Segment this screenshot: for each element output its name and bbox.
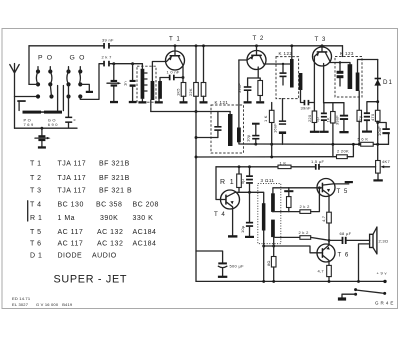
- wire row3 GO to osc cap: [80, 64, 103, 100]
- resistor T2 bias lower: [201, 83, 206, 97]
- svg-text:EL 3027 G V 16 000 B419: EL 3027 G V 16 000 B419: [12, 302, 73, 307]
- node branch K121: [195, 136, 198, 139]
- wire bias res top to bus: [203, 46, 205, 83]
- svg-text:2 k 2: 2 k 2: [300, 204, 311, 209]
- svg-text:BC 130: BC 130: [58, 202, 84, 209]
- wire pot ground stem: [377, 173, 379, 179]
- wire secondary top to T5 base: [273, 188, 317, 194]
- ground 1K5: [180, 101, 188, 103]
- node det res AGC: [358, 143, 361, 146]
- capacitor 10uF T4: [240, 192, 253, 236]
- wire AGC sloping line: [239, 142, 361, 144]
- node R1 top: [238, 165, 241, 168]
- ground VC1: [38, 146, 46, 148]
- wire 500uF branch: [196, 251, 223, 262]
- wire T3 emitter branch: [324, 102, 344, 104]
- wire D1 branch to 22uF: [367, 102, 378, 113]
- ground 10uF: [245, 236, 254, 238]
- wire 8ohm to bus: [273, 267, 275, 281]
- wire T3 base riser: [313, 57, 315, 103]
- wire R1 stems: [238, 167, 240, 193]
- svg-text:ED 14.71: ED 14.71: [12, 296, 31, 301]
- capacitor 39nF T3 emitter: [334, 103, 348, 131]
- wire L2 top to T1 base: [152, 62, 165, 82]
- svg-text:5µ: 5µ: [240, 179, 245, 184]
- ground osc L3: [158, 99, 160, 101]
- wire T3 top stem: [321, 46, 323, 47]
- node 10u decoupler: [254, 143, 257, 146]
- K121 secondary coil bar: [237, 128, 241, 143]
- wire T1 top stem: [174, 46, 176, 51]
- svg-text:4,7: 4,7: [318, 269, 325, 274]
- capacitor 10nF T1: [167, 70, 180, 81]
- capacitor 5u bootstrap: [240, 167, 253, 193]
- svg-text:T 1: T 1: [30, 160, 42, 167]
- node 5u top: [248, 165, 251, 168]
- potentiometer 4K7 volume: [376, 159, 391, 173]
- svg-text:220: 220: [307, 114, 312, 122]
- wire AGC right end: [361, 143, 389, 145]
- wire T6 res to bus: [328, 277, 330, 282]
- wire coil bottom bus: [15, 123, 78, 128]
- wire K122 primary top to bus: [291, 46, 293, 59]
- parts table bracket: [27, 201, 29, 221]
- top supply bus: [29, 45, 343, 47]
- resistor 2k2 upper: [300, 204, 311, 213]
- transistor T2: [247, 35, 266, 78]
- svg-text:1K: 1K: [325, 117, 330, 122]
- coil L1 taps: [144, 73, 147, 91]
- oscillator coil bar L1: [141, 69, 145, 99]
- svg-text:7 6 9: 7 6 9: [24, 122, 34, 127]
- svg-text:T 2: T 2: [253, 35, 265, 42]
- wire T2 base riser to K121: [238, 60, 240, 128]
- node 220K riser: [352, 143, 355, 146]
- wire speaker return: [359, 244, 370, 282]
- svg-text:39nF: 39nF: [237, 83, 242, 93]
- capacitor T2 emitter bypass: [237, 78, 251, 93]
- loudspeaker: [370, 227, 389, 255]
- wire 10nF to T1 collector: [175, 77, 183, 79]
- wire 2k2 lower wiring: [275, 237, 329, 240]
- wire T4 base riser: [216, 167, 221, 200]
- wire 22K top stem: [195, 46, 197, 83]
- svg-text:T 4: T 4: [214, 211, 226, 218]
- svg-text:1 K: 1 K: [280, 160, 287, 165]
- driver transformer 3011 dotted box: [258, 184, 281, 244]
- wire branch to K121 cap: [196, 137, 218, 139]
- power switch contact a: [354, 288, 357, 291]
- svg-text:10µ: 10µ: [240, 225, 245, 233]
- wire 220K ends: [347, 144, 353, 156]
- main bus vertical left: [195, 112, 197, 282]
- wire L1 ground stem: [141, 99, 143, 101]
- oscillator coil bar L2: [151, 81, 155, 100]
- svg-text:T 3: T 3: [30, 188, 42, 195]
- svg-text:T 4: T 4: [30, 202, 42, 209]
- wire T3 collector: [331, 63, 350, 65]
- capacitor 68uF output: [329, 231, 370, 244]
- node T1 top bus: [174, 44, 177, 47]
- resistor R1: [220, 174, 241, 188]
- svg-text:BF 321B: BF 321B: [99, 160, 130, 167]
- wire T6 base feed: [264, 246, 318, 253]
- svg-text:c: c: [74, 117, 76, 122]
- svg-text:4,7: 4,7: [321, 215, 326, 222]
- resistor 4,7 T6: [318, 265, 332, 276]
- capacitor K121 tuning: [214, 112, 221, 138]
- wire bus corner into K123: [342, 46, 344, 57]
- ground pot: [373, 179, 382, 181]
- svg-text:2 20K: 2 20K: [337, 149, 349, 154]
- transistor T3: [313, 36, 332, 103]
- node AVC bus: [195, 110, 198, 113]
- wire 470 to pot: [377, 121, 379, 160]
- K122 primary coil bar: [290, 59, 294, 88]
- node D1 branch: [376, 100, 379, 103]
- ground T4 emitter: [228, 235, 237, 237]
- ground 39nF d: [339, 131, 348, 133]
- resistor 8ohm bias: [266, 257, 276, 268]
- wire bias res stems: [313, 103, 315, 131]
- wire trimmer stem: [18, 102, 20, 111]
- node bias res bus: [202, 44, 205, 47]
- trimmer plate near antenna: [17, 100, 25, 102]
- svg-text:2 k 2: 2 k 2: [299, 230, 310, 235]
- wire K123 secondary bottom: [358, 91, 360, 110]
- svg-text:1 K: 1 K: [263, 115, 268, 122]
- decoupling cap with top plate: [245, 123, 259, 144]
- IF transformer K121 dashed box: [211, 105, 244, 153]
- node volume bus: [195, 156, 198, 159]
- node bus T6: [328, 280, 331, 283]
- node osc VC2: [112, 62, 115, 65]
- wire T2 base stub: [239, 59, 247, 61]
- wire AF input line: [216, 166, 376, 168]
- capacitor 10nF det: [377, 123, 390, 145]
- resistor 56K horizontal: [358, 137, 374, 147]
- transistor T1: [166, 36, 185, 83]
- wire T2 top stem: [256, 46, 258, 51]
- ground VC2: [110, 101, 118, 103]
- svg-text:G R 4 E: G R 4 E: [375, 301, 394, 306]
- wire VC2 stem: [113, 64, 115, 80]
- node primary riser: [262, 245, 265, 248]
- wire 1K T3 stems and riser to 220K: [332, 103, 334, 157]
- svg-text:5 6 K: 5 6 K: [358, 137, 369, 142]
- switch GO ground link: [80, 84, 89, 90]
- node K122 bus: [290, 44, 293, 47]
- wire L2 bottom to AVC: [150, 100, 152, 112]
- transformer 3011 secondary upper bar: [271, 193, 275, 212]
- node T5 base: [318, 186, 321, 189]
- ground GO switch: [86, 91, 93, 93]
- svg-text:T 1: T 1: [169, 36, 181, 43]
- battery chassis block: [338, 297, 346, 300]
- svg-text:BC 208: BC 208: [133, 202, 159, 209]
- svg-text:3 Ω11: 3 Ω11: [261, 178, 275, 183]
- oscillator coil bar L3: [158, 81, 162, 99]
- svg-text:+ 9 v: + 9 v: [377, 271, 387, 276]
- capacitor 500uF: [218, 262, 244, 275]
- wire 22uF ground stem: [366, 121, 368, 130]
- ground cap1n: [129, 101, 137, 103]
- K123 primary coil bar: [348, 64, 353, 89]
- svg-text:BF 321B: BF 321B: [99, 175, 130, 182]
- capacitor 1n osc: [122, 64, 135, 87]
- resistor 4,7 T5 emitter: [321, 212, 331, 223]
- wire row3 trimmer stem: [68, 97, 70, 117]
- transformer 3011 secondary lower bar: [271, 220, 275, 238]
- svg-text:39 nF: 39 nF: [102, 38, 114, 43]
- svg-text:6 9 0: 6 9 0: [48, 122, 58, 127]
- capacitor 1,5uF AF: [311, 159, 324, 170]
- node cap10nF top: [376, 121, 379, 124]
- capacitor 39nF series in bus: [102, 38, 114, 49]
- svg-text:SUPER - JET: SUPER - JET: [54, 274, 128, 286]
- node 56K junction D1 line: [376, 143, 379, 146]
- node collector cap: [248, 191, 251, 194]
- node osc cap1n: [131, 62, 134, 65]
- resistor 1K T3: [325, 112, 335, 124]
- wire K123 secondary top to D1: [358, 60, 378, 73]
- node K122 cap top: [282, 63, 284, 65]
- transformer 3011 primary bar: [262, 203, 266, 230]
- K122 secondary coil bar: [299, 73, 303, 90]
- switch row1 stems: [38, 67, 80, 72]
- ground 500uF: [218, 276, 227, 278]
- wire 22K bottom to AVC node: [195, 96, 197, 111]
- svg-text:AC 117: AC 117: [58, 229, 84, 236]
- wire 2k2 upper to base: [311, 188, 320, 212]
- power switch contact b: [354, 293, 357, 296]
- resistor T2 emitter: [258, 81, 263, 96]
- svg-text:330 K: 330 K: [133, 215, 154, 222]
- svg-text:BF 321 B: BF 321 B: [99, 188, 132, 195]
- power switch terminal: [383, 292, 386, 295]
- svg-text:500 µF: 500 µF: [230, 264, 245, 269]
- wire secondary upper bottom to 2k2: [273, 211, 300, 213]
- node bus speaker: [357, 280, 360, 283]
- node 22K top: [195, 44, 198, 47]
- svg-text:K 121: K 121: [215, 100, 229, 105]
- svg-text:K 122: K 122: [279, 51, 293, 56]
- capacitor 16nF: [273, 99, 287, 145]
- coil GO 690 ferrite bar: [44, 111, 62, 114]
- wire K122 secondary to 39nF: [301, 90, 304, 103]
- svg-text:R 1: R 1: [30, 215, 42, 222]
- wire 1K5 ground stem: [183, 96, 185, 101]
- svg-text:R 1: R 1: [220, 179, 235, 186]
- svg-text:T 5: T 5: [30, 229, 42, 236]
- svg-text:AC184: AC184: [133, 241, 157, 248]
- svg-text:2 k 7: 2 k 7: [102, 55, 113, 60]
- svg-text:AC 117: AC 117: [58, 241, 84, 248]
- ground 22uF: [362, 131, 372, 133]
- wire box edge to row2: [29, 83, 38, 85]
- capacitor K122 tuning: [280, 64, 287, 85]
- svg-text:AC 132: AC 132: [97, 241, 123, 248]
- node VC1 top: [41, 127, 44, 130]
- svg-text:P O: P O: [38, 55, 53, 62]
- resistor 1K5: [176, 83, 186, 97]
- wire T2 res ground stem: [259, 96, 261, 101]
- capacitor 2k7 series osc: [102, 55, 113, 67]
- ground osc L1: [138, 101, 146, 103]
- svg-text:TJA 117: TJA 117: [58, 188, 87, 195]
- antenna: [10, 64, 19, 129]
- svg-text:1K5: 1K5: [176, 88, 181, 96]
- wire volume feed: [196, 156, 337, 158]
- node bus primary: [262, 280, 265, 283]
- wire T6 top stem: [328, 240, 330, 245]
- variable capacitor VC1 (tuning gang a): [35, 128, 51, 141]
- svg-text:T 6: T 6: [30, 241, 42, 248]
- svg-text:1 Ma: 1 Ma: [58, 215, 76, 222]
- node T5 T6 junction: [328, 239, 331, 242]
- wire 39nF to base riser: [309, 102, 314, 104]
- node bus 8ohm: [272, 280, 275, 283]
- transistor T4: [214, 190, 240, 235]
- wire 1K riser: [271, 103, 273, 158]
- resistor 220K horizontal: [337, 149, 349, 159]
- svg-text:8Ω: 8Ω: [266, 260, 271, 266]
- transistor T5: [317, 179, 349, 213]
- wire antenna to switch row3: [15, 96, 39, 98]
- svg-text:T 2: T 2: [30, 175, 42, 182]
- wire K121 primary top stem: [229, 112, 231, 115]
- svg-text:10µ: 10µ: [245, 134, 250, 142]
- wire det res to AGC: [358, 121, 360, 144]
- K121 primary coil bar: [228, 114, 233, 146]
- band switch box PO GO: [28, 46, 30, 85]
- wire T2 collector to K122: [264, 63, 290, 65]
- resistor 22K: [188, 83, 198, 97]
- wire VC2 to ground: [113, 87, 115, 101]
- svg-text:68 µF: 68 µF: [340, 231, 352, 236]
- diode D1: [374, 60, 393, 111]
- wire VC1 to ground: [41, 141, 43, 146]
- svg-text:39nF: 39nF: [334, 115, 339, 125]
- node AGC crossing: [331, 143, 334, 146]
- resistor 1K vertical: [263, 110, 274, 122]
- svg-text:T 3: T 3: [315, 36, 327, 43]
- node T1 collector junction: [182, 76, 185, 79]
- svg-text:39nF: 39nF: [301, 106, 312, 111]
- node riser W2: [270, 155, 273, 158]
- resistor bias T5: [287, 197, 292, 208]
- wire osc feed: [110, 63, 143, 65]
- svg-text:390K: 390K: [100, 215, 118, 222]
- wire AVC line: [151, 111, 230, 113]
- svg-text:DIODE: DIODE: [58, 253, 83, 260]
- wire T4 collector: [235, 192, 264, 203]
- node riser 1K: [270, 143, 273, 146]
- switch row2-row3 links: [50, 84, 68, 96]
- wire T5 emitter to node: [328, 223, 330, 245]
- wire switch to battery symbol: [342, 294, 356, 297]
- wire L3 top to 10nF: [160, 78, 169, 82]
- svg-text:AC 132: AC 132: [97, 229, 123, 236]
- svg-text:22K: 22K: [188, 88, 193, 96]
- svg-text:470: 470: [370, 113, 375, 121]
- wire primary bottom to bus: [263, 231, 265, 282]
- wire T2 cap ground stem: [247, 91, 249, 101]
- power switch arm: [357, 290, 385, 293]
- svg-text:G O: G O: [70, 55, 86, 62]
- node T6 base riser: [272, 245, 275, 248]
- capacitor K123 tuning: [337, 63, 344, 87]
- coil link: [41, 111, 45, 113]
- svg-text:AC184: AC184: [133, 229, 157, 236]
- svg-text:1,5 µF: 1,5 µF: [311, 159, 324, 164]
- wire L1 top stem: [141, 64, 143, 69]
- wire bias res bottom: [288, 208, 290, 212]
- wire T5 collector chassis: [333, 183, 349, 185]
- wire T2 emitter split: [248, 78, 261, 81]
- oscillator coil box dashed: [137, 66, 156, 102]
- wire bias stem: [288, 188, 290, 197]
- resistor 470 in D1 line: [370, 110, 380, 121]
- node battery terminal: [383, 280, 386, 283]
- svg-text:2µ: 2µ: [315, 117, 320, 122]
- svg-text:16nF: 16nF: [273, 123, 278, 133]
- svg-text:TJA 117: TJA 117: [58, 175, 87, 182]
- K123 secondary coil bar: [356, 73, 360, 92]
- resistor 2k2 lower: [299, 230, 311, 239]
- svg-text:BC 358: BC 358: [96, 202, 122, 209]
- svg-text:T 5: T 5: [337, 188, 349, 195]
- wire cap1n ground stem: [132, 87, 134, 101]
- wire secondary lower to resistor: [273, 237, 275, 256]
- wire bias res ground stem: [203, 96, 205, 101]
- svg-text:D1: D1: [383, 79, 393, 86]
- svg-text:4K7: 4K7: [382, 159, 390, 164]
- ground bias res: [200, 101, 208, 103]
- capacitor 39nF T3 base: [301, 100, 312, 111]
- ground T2 cap: [244, 101, 252, 103]
- node K123 cap top: [339, 61, 341, 63]
- IF transformer K122 dashed box: [276, 57, 299, 99]
- switch contacts row 2: [36, 82, 83, 86]
- wire coil risers to switch: [58, 86, 64, 111]
- chassis bar T5: [345, 181, 353, 183]
- resistor detector load: [357, 110, 362, 121]
- svg-text:22µ: 22µ: [358, 115, 363, 123]
- variable capacitor VC2 (tuning gang b): [107, 80, 121, 87]
- ground T3 bias: [310, 131, 319, 133]
- bias network chassis bar: [284, 190, 293, 192]
- svg-text:2;3Ω: 2;3Ω: [379, 239, 389, 244]
- svg-text:1n: 1n: [122, 81, 127, 86]
- trimmer capacitor C1: [65, 117, 76, 123]
- IF transformer K123 dashed box: [335, 57, 362, 98]
- node T2 top bus: [255, 44, 258, 47]
- switch contacts row 3: [36, 94, 83, 98]
- resistor T3 base bias: [307, 111, 317, 123]
- svg-text:TJA 117: TJA 117: [58, 160, 87, 167]
- svg-text:T 6: T 6: [338, 252, 350, 259]
- node T3 top bus: [321, 44, 324, 47]
- bottom supply bus: [196, 280, 385, 282]
- svg-text:AUDIO: AUDIO: [92, 253, 117, 260]
- svg-text:D 1: D 1: [30, 253, 42, 260]
- capacitor 22uF: [358, 112, 371, 123]
- ground T2 res: [256, 101, 264, 103]
- svg-text:10nF: 10nF: [377, 126, 382, 136]
- capacitor 2uF T3 emitter: [315, 103, 327, 131]
- coil PO 769 ferrite bar: [23, 111, 42, 114]
